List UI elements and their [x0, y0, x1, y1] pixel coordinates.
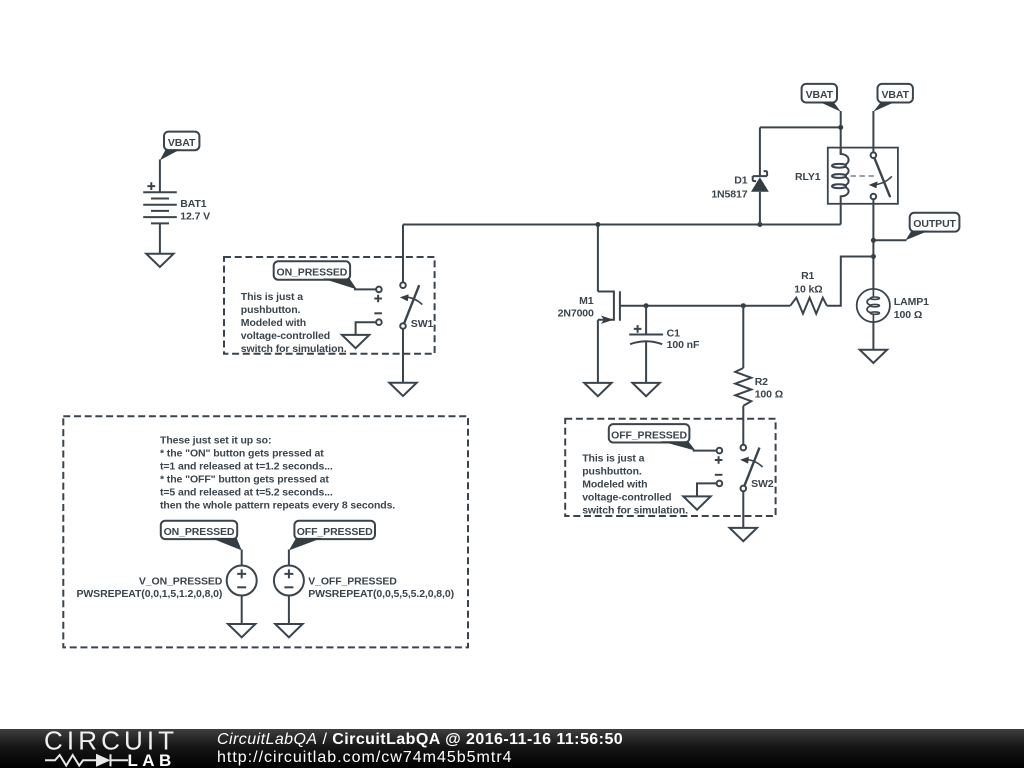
polarity marks SW1: [374, 295, 382, 314]
SW2 control terminal +: [717, 448, 723, 454]
wire main rail y=224.5: [403, 224, 841, 226]
svg-text:then the whole pattern repeats: then the whole pattern repeats every 8 s…: [160, 500, 395, 512]
svg-text:voltage-controlled: voltage-controlled: [241, 330, 330, 342]
svg-text:PWSREPEAT(0,0,5,5,5.2,0,8,0): PWSREPEAT(0,0,5,5,5.2,0,8,0): [308, 588, 454, 600]
relay coil: [841, 148, 849, 225]
svg-text:LAB: LAB: [128, 751, 176, 768]
relay dashed actuator link: [851, 175, 877, 177]
svg-text:http://circuitlab.com/cw74m45b: http://circuitlab.com/cw74m45b5mtr4: [217, 749, 513, 766]
svg-text:R1: R1: [801, 270, 814, 282]
svg-text:RLY1: RLY1: [795, 171, 821, 183]
wire flag to V_OFF_PRESSED: [288, 550, 290, 566]
wire lamp to ground: [872, 322, 874, 350]
label D1 1N5817: [711, 175, 747, 201]
svg-text:Modeled with: Modeled with: [582, 479, 647, 491]
logo circuit line art: [45, 754, 128, 766]
voltage source V_ON_PRESSED: [227, 566, 257, 596]
svg-text:* the "ON" button gets pressed: * the "ON" button gets pressed at: [160, 448, 324, 460]
wire flag to V_ON_PRESSED: [241, 550, 243, 566]
wire SW1 control to ground: [356, 322, 377, 335]
net flag VBAT (relay switch): [873, 84, 913, 112]
annotation box sources: [63, 416, 468, 647]
svg-text:switch for simulation.: switch for simulation.: [582, 505, 688, 517]
battery BAT1: [143, 182, 177, 223]
svg-text:CircuitLabQA / CircuitLabQA @: CircuitLabQA / CircuitLabQA @ 2016-11-16…: [217, 731, 623, 748]
junction D1 / rail: [757, 222, 762, 227]
relay switch blade: [874, 158, 890, 198]
note text SW2: [582, 453, 688, 517]
svg-text:pushbutton.: pushbutton.: [241, 304, 301, 316]
wire SW2 control to ground: [697, 483, 717, 496]
ground (V_ON_PRESSED): [228, 624, 255, 637]
wire R1 to lamp node: [827, 257, 874, 306]
note text SW1: [241, 291, 347, 355]
label R1 10 kOhm: [794, 270, 822, 295]
SW1 control terminal +: [376, 287, 382, 293]
voltage source V_OFF_PRESSED: [274, 566, 304, 596]
junction coil / VBAT: [838, 125, 843, 130]
relay RLY1: [828, 148, 898, 225]
label V_ON_PRESSED PWSREPEAT: [76, 575, 222, 600]
svg-text:OFF_PRESSED: OFF_PRESSED: [297, 526, 373, 538]
footer bar: [0, 729, 1024, 768]
svg-text:V_ON_PRESSED: V_ON_PRESSED: [139, 575, 223, 587]
ground (V_OFF_PRESSED): [275, 624, 302, 637]
wire battery negative: [159, 223, 161, 253]
svg-text:LAMP1: LAMP1: [894, 296, 929, 308]
net flag VBAT (battery): [160, 132, 200, 161]
switch SW2: [740, 445, 763, 491]
net flag ON_PRESSED (source V_ON_PRESSED): [161, 521, 242, 551]
logo diode triangle: [96, 754, 111, 767]
svg-text:OFF_PRESSED: OFF_PRESSED: [611, 429, 687, 441]
SW1 control terminal -: [376, 319, 382, 325]
resistor R2 100 Ohm: [735, 368, 751, 406]
ground (battery): [146, 254, 173, 267]
label M1 2N7000: [558, 295, 594, 319]
junction R1 branch: [871, 254, 876, 259]
svg-text:pushbutton.: pushbutton.: [582, 466, 642, 478]
svg-text:voltage-controlled: voltage-controlled: [582, 492, 671, 504]
svg-text:VBAT: VBAT: [806, 89, 834, 101]
label BAT1 12.7 V: [180, 198, 210, 223]
svg-text:Modeled with: Modeled with: [241, 317, 306, 329]
wire R2 to SW2: [742, 406, 744, 445]
wire V_ON_PRESSED to ground: [241, 596, 243, 625]
polarity marks SW2: [715, 456, 723, 475]
svg-text:10 kΩ: 10 kΩ: [794, 283, 822, 295]
svg-text:M1: M1: [579, 295, 594, 307]
svg-text:t=5 and released at t=5.2 seco: t=5 and released at t=5.2 seconds...: [160, 487, 333, 499]
net flag OFF_PRESSED (SW2 control): [609, 424, 717, 451]
wire VBAT to coil junction: [840, 111, 842, 154]
wire top link D1 to coil: [760, 126, 841, 128]
svg-text:VBAT: VBAT: [168, 137, 196, 149]
svg-text:VBAT: VBAT: [881, 89, 909, 101]
wire battery positive: [159, 160, 161, 193]
svg-text:C1: C1: [667, 327, 680, 339]
svg-text:100 Ω: 100 Ω: [894, 309, 922, 321]
svg-text:PWSREPEAT(0,0,1,5,1.2,0,8,0): PWSREPEAT(0,0,1,5,1.2,0,8,0): [76, 588, 222, 600]
svg-text:* the "OFF" button gets presse: * the "OFF" button gets pressed at: [160, 474, 329, 486]
ground (SW2): [730, 528, 757, 541]
net flag OFF_PRESSED (source V_OFF_PRESSED): [289, 521, 375, 551]
svg-text:100 Ω: 100 Ω: [755, 389, 783, 401]
relay switch contacts: [871, 152, 877, 158]
svg-text:R2: R2: [755, 376, 768, 388]
label LAMP1 100 Ohm: [894, 296, 929, 321]
junction R2: [741, 303, 746, 308]
ground (SW2 control): [683, 496, 710, 509]
ground (SW1 control): [342, 335, 369, 348]
MOSFET M1 2N7000: [598, 291, 620, 383]
junction C1: [644, 303, 649, 308]
svg-text:2N7000: 2N7000: [558, 308, 594, 320]
wire M1 drain drop: [597, 225, 599, 292]
svg-text:BAT1: BAT1: [180, 198, 207, 210]
svg-text:switch for simulation.: switch for simulation.: [241, 343, 347, 355]
junction M1 drain / rail: [595, 222, 600, 227]
annotation box SW2: [565, 419, 775, 516]
wire gate rail: [620, 305, 790, 307]
svg-text:V_OFF_PRESSED: V_OFF_PRESSED: [308, 575, 397, 587]
capacitor C1 100 nF: [629, 306, 663, 383]
ground (SW1): [389, 383, 416, 396]
net flag OUTPUT: [873, 213, 959, 241]
ground (LAMP1): [860, 350, 887, 363]
note text timing: [160, 435, 395, 512]
svg-text:ON_PRESSED: ON_PRESSED: [164, 526, 235, 538]
svg-text:SW2: SW2: [751, 478, 774, 490]
annotation box SW1: [224, 257, 435, 354]
relay actuator arrow: [874, 176, 892, 185]
net flag ON_PRESSED (SW1 control): [274, 261, 376, 289]
wire R2 top: [742, 306, 744, 368]
ground (M1 source): [584, 383, 611, 396]
svg-text:OUTPUT: OUTPUT: [913, 218, 956, 230]
wire SW2 to ground: [742, 491, 744, 528]
svg-text:ON_PRESSED: ON_PRESSED: [277, 267, 348, 279]
resistor R1 10 kOhm: [790, 298, 827, 314]
svg-text:1N5817: 1N5817: [711, 188, 747, 200]
SW2 control terminal -: [717, 481, 723, 487]
label C1 100 nF: [667, 327, 700, 351]
label V_OFF_PRESSED PWSREPEAT: [308, 575, 454, 600]
label R2 100 Ohm: [755, 376, 783, 401]
wire SW1 drop: [402, 225, 404, 283]
wire relay switch to output node: [872, 199, 874, 290]
svg-text:SW1: SW1: [411, 318, 434, 330]
junction OUTPUT: [871, 238, 876, 243]
wire V_OFF_PRESSED to ground: [288, 596, 290, 625]
svg-text:12.7 V: 12.7 V: [180, 210, 210, 222]
svg-text:D1: D1: [734, 175, 747, 187]
svg-text:These just set it up so:: These just set it up so:: [160, 435, 271, 447]
diode D1 1N5817: [751, 127, 769, 224]
wire VBAT to relay switch: [872, 111, 874, 152]
switch SW1: [400, 282, 423, 328]
wire SW1 to ground: [402, 329, 404, 383]
net flag VBAT (relay coil): [802, 84, 841, 112]
ground (C1): [632, 383, 659, 396]
svg-text:This is just a: This is just a: [241, 291, 303, 303]
lamp LAMP1: [857, 289, 890, 322]
svg-text:100 nF: 100 nF: [667, 339, 700, 351]
svg-text:This is just a: This is just a: [582, 453, 644, 465]
svg-text:t=1 and released at t=1.2 seco: t=1 and released at t=1.2 seconds...: [160, 461, 333, 473]
